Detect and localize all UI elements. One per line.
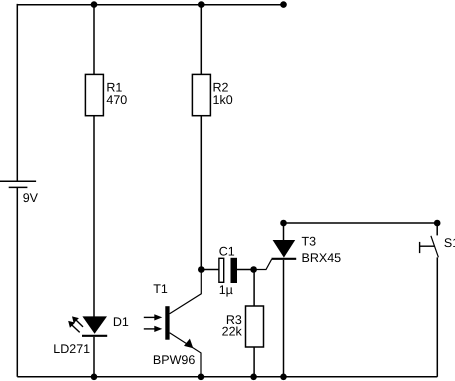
node top rail end — [280, 1, 287, 8]
wire T3 cathode to bottom rail — [283, 260, 285, 377]
node T1 emitter bottom junction — [198, 374, 205, 381]
capacitor C1 positive plate — [231, 258, 238, 283]
phototransistor T1 light arrow 2 — [144, 326, 163, 332]
phototransistor T1 light arrow 1 — [144, 314, 163, 320]
switch S1 actuator rod — [420, 245, 435, 247]
svg-text:T3: T3 — [302, 235, 317, 249]
battery BT1 positive plate — [0, 180, 36, 182]
switch S1 lever — [431, 236, 439, 257]
resistor R2 — [192, 74, 210, 115]
wire R2 top lead — [200, 5, 202, 75]
node top junction R2 branch — [198, 1, 205, 8]
wire top rail — [17, 4, 283, 6]
wire R2 to node A — [200, 116, 202, 270]
wire R1 to D1 — [93, 116, 95, 317]
phototransistor T1 emitter arrow — [184, 339, 193, 349]
svg-text:9V: 9V — [23, 191, 39, 205]
svg-text:22k: 22k — [222, 325, 243, 339]
wire C1 to node B — [237, 269, 254, 271]
wire R3 to bottom rail — [253, 347, 255, 377]
svg-text:T1: T1 — [153, 282, 168, 296]
wire anode rail — [284, 222, 438, 224]
wire gate from node B to T3 — [254, 259, 272, 269]
wire S1 to bottom rail — [436, 257, 438, 376]
wire bottom rail — [17, 376, 437, 378]
node T3 bottom junction — [280, 374, 287, 381]
wire T3 anode lead — [283, 223, 285, 241]
node top junction R1 branch — [91, 1, 98, 8]
node A junction — [198, 266, 205, 273]
svg-text:S1: S1 — [444, 236, 455, 250]
node T3 anode junction — [280, 220, 287, 227]
switch S1 actuator cap — [419, 242, 421, 253]
node S1 top junction — [434, 220, 441, 227]
LED D1 cathode bar — [82, 335, 107, 337]
wire left rail lower — [16, 187, 18, 376]
svg-text:470: 470 — [106, 93, 127, 107]
svg-text:D1: D1 — [113, 315, 129, 329]
LED D1 anode triangle — [82, 316, 107, 333]
node R3 bottom junction — [250, 374, 257, 381]
node B junction — [250, 266, 257, 273]
phototransistor T1 emitter — [170, 333, 201, 377]
wire node B to R3 — [253, 270, 255, 307]
thyristor T3 anode triangle — [273, 240, 296, 258]
svg-text:C1: C1 — [219, 244, 235, 258]
svg-text:BRX45: BRX45 — [302, 251, 342, 265]
LED D1 light arrow 1 — [72, 316, 83, 327]
resistor R1 — [85, 74, 103, 115]
resistor R3 — [246, 306, 264, 347]
wire T1 collector — [170, 270, 202, 314]
wire left rail upper — [16, 4, 18, 181]
wire node A to C1 — [201, 269, 218, 271]
wire R1 top lead — [93, 5, 95, 75]
svg-text:LD271: LD271 — [53, 342, 90, 356]
wire D1 to bottom rail — [93, 337, 95, 377]
phototransistor T1 base bar — [165, 306, 169, 340]
battery BT1 negative plate — [9, 186, 28, 188]
capacitor C1 negative plate — [219, 258, 224, 282]
svg-text:1k0: 1k0 — [213, 93, 233, 107]
svg-text:BPW96: BPW96 — [153, 353, 195, 367]
svg-text:1µ: 1µ — [219, 283, 233, 297]
LED D1 light arrow 2 — [68, 321, 80, 333]
switch S1 top contact — [436, 223, 438, 235]
thyristor T3 cathode bar — [272, 258, 297, 260]
node D1 bottom junction — [91, 374, 98, 381]
